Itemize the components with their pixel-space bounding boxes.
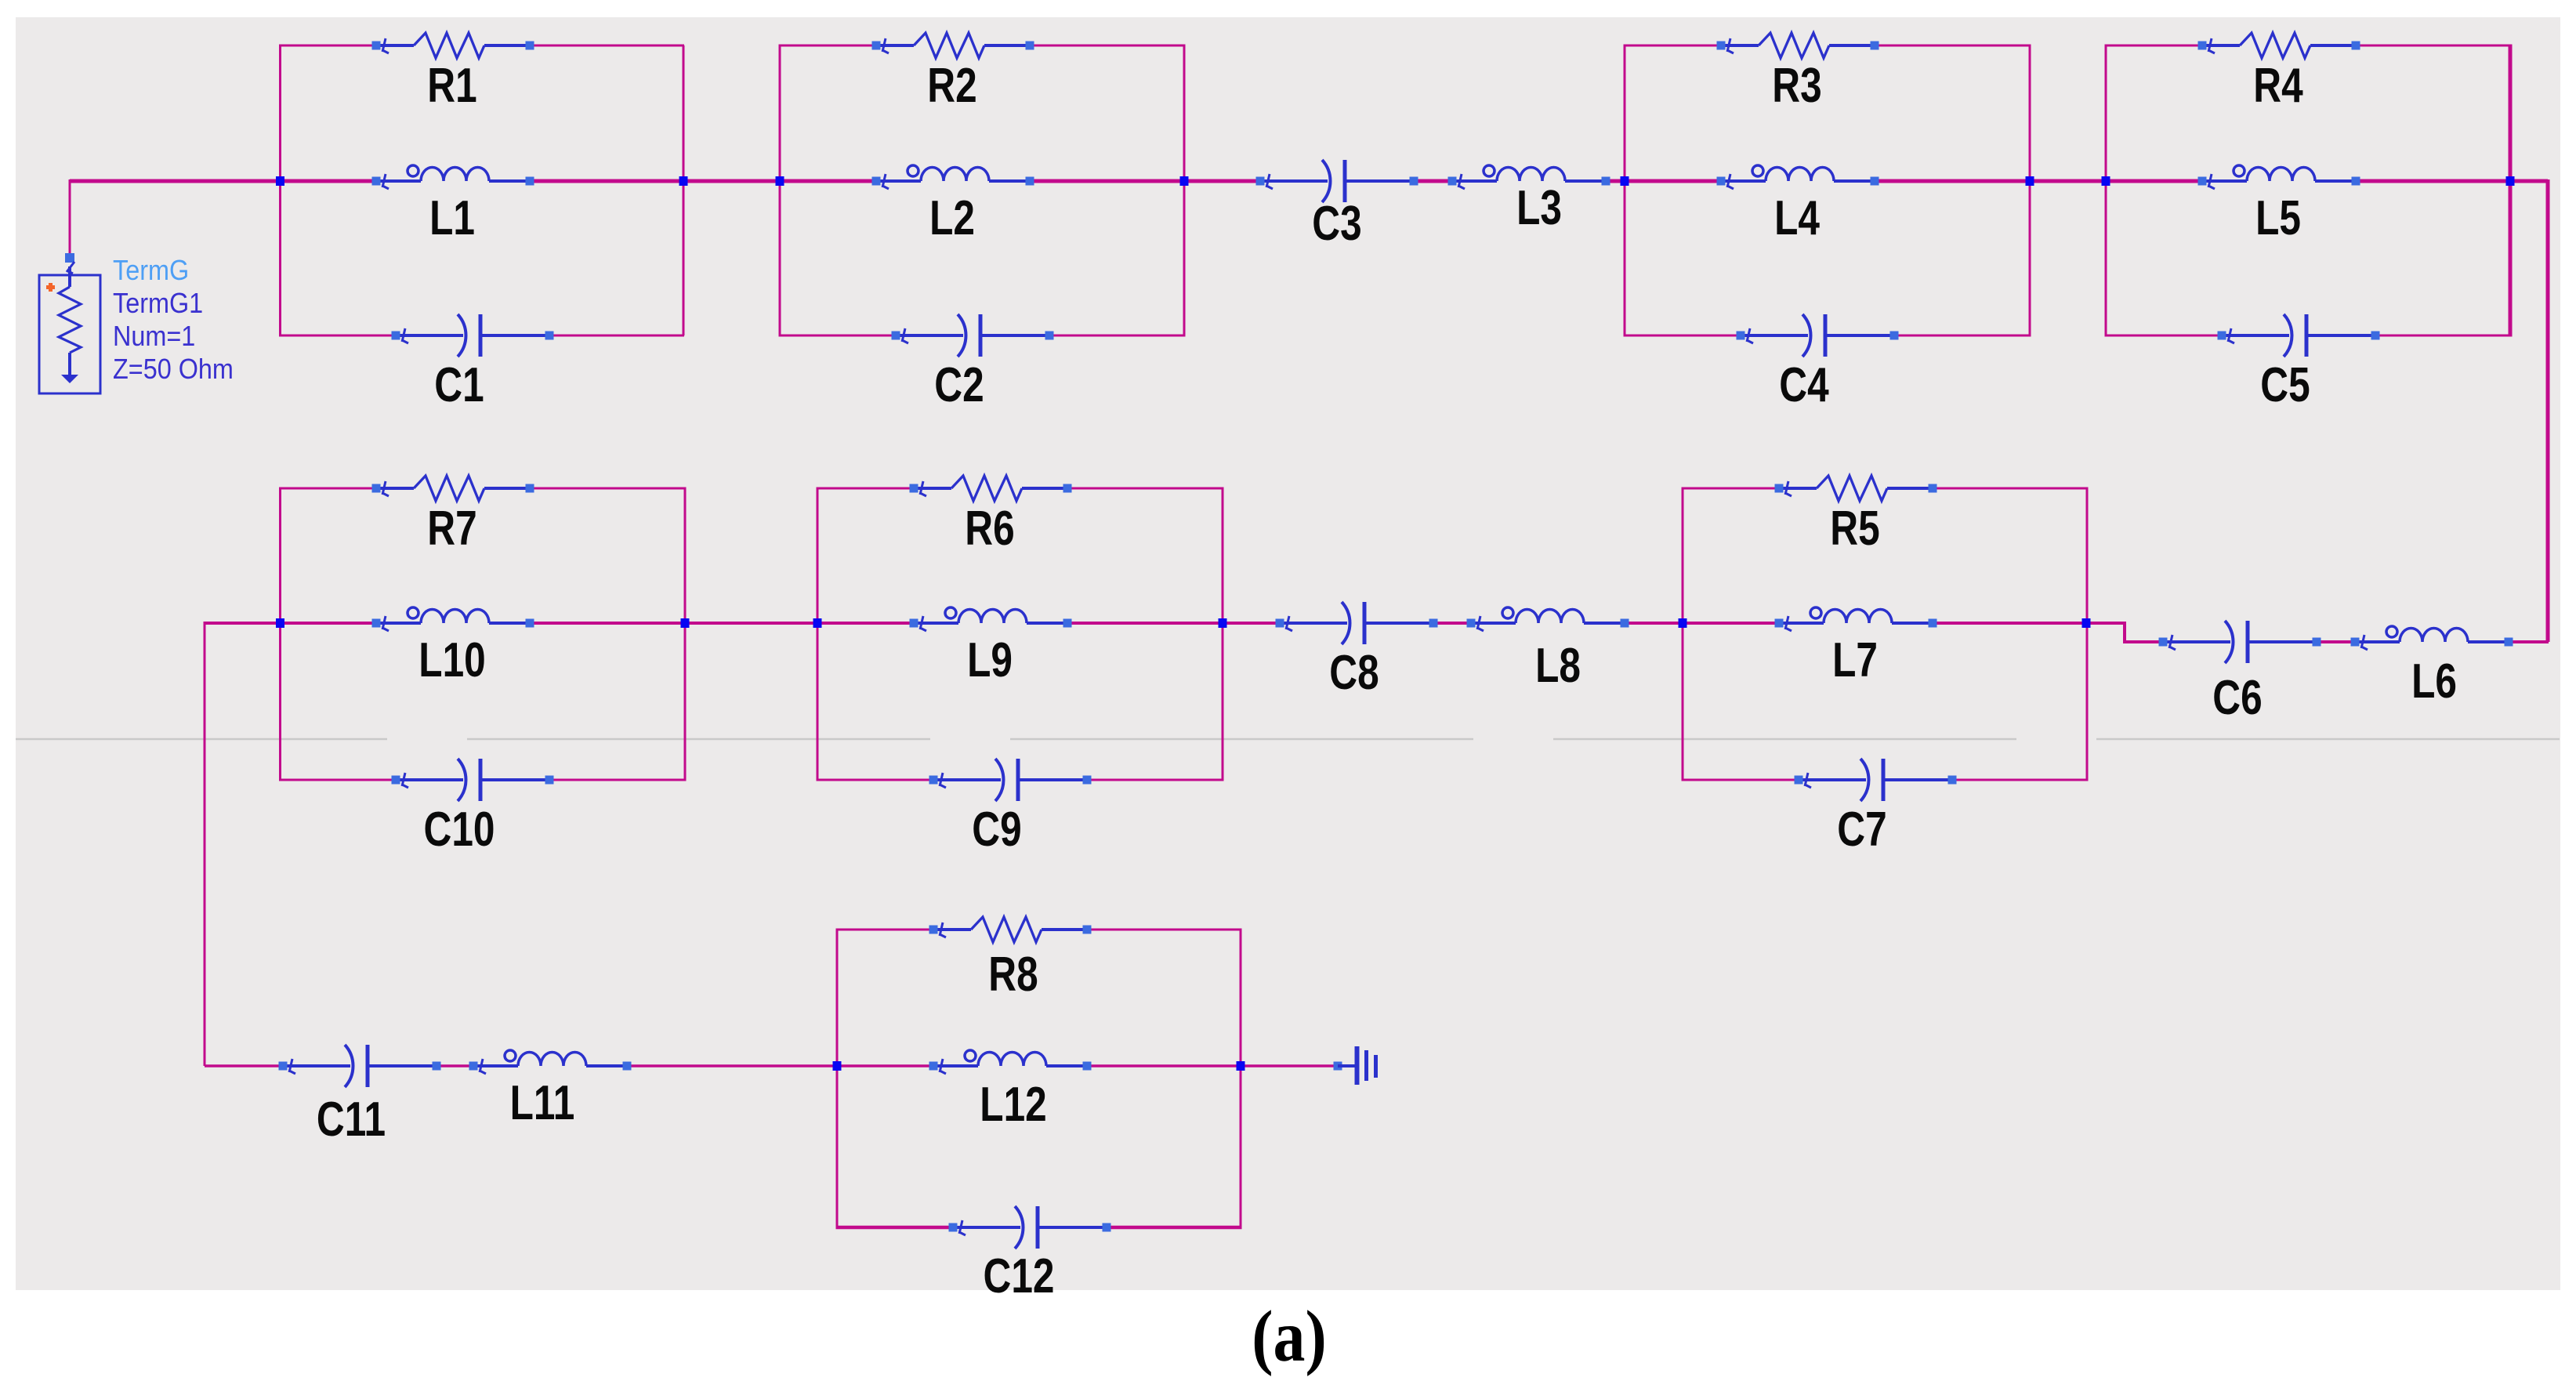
- svg-text:C11: C11: [317, 1092, 386, 1147]
- svg-text:C8: C8: [1329, 645, 1379, 700]
- svg-text:Num=1: Num=1: [113, 321, 195, 352]
- svg-text:C5: C5: [2260, 357, 2310, 412]
- svg-text:L7: L7: [1832, 633, 1878, 687]
- svg-text:R7: R7: [427, 501, 476, 556]
- svg-text:R1: R1: [427, 58, 476, 113]
- svg-text:L1: L1: [429, 190, 475, 245]
- svg-text:L10: L10: [418, 633, 485, 687]
- svg-text:TermG: TermG: [113, 255, 189, 286]
- svg-text:R8: R8: [988, 947, 1038, 1002]
- svg-text:R6: R6: [965, 501, 1014, 556]
- svg-text:C6: C6: [2212, 670, 2262, 725]
- svg-text:L8: L8: [1535, 638, 1581, 693]
- svg-text:C12: C12: [984, 1249, 1055, 1303]
- svg-text:TermG1: TermG1: [113, 288, 203, 319]
- svg-text:R3: R3: [1772, 58, 1821, 113]
- svg-text:L6: L6: [2411, 654, 2457, 709]
- svg-text:C7: C7: [1837, 802, 1886, 857]
- svg-text:L4: L4: [1774, 190, 1820, 245]
- svg-text:C2: C2: [934, 357, 984, 412]
- svg-text:L12: L12: [980, 1077, 1046, 1132]
- svg-text:C1: C1: [434, 357, 484, 412]
- svg-text:C9: C9: [972, 802, 1021, 857]
- svg-text:C10: C10: [424, 802, 495, 857]
- svg-text:R5: R5: [1830, 501, 1879, 556]
- svg-text:C3: C3: [1312, 196, 1361, 251]
- svg-text:R4: R4: [2253, 58, 2302, 113]
- svg-text:C4: C4: [1779, 357, 1828, 412]
- svg-text:Z=50 Ohm: Z=50 Ohm: [113, 353, 234, 385]
- svg-text:L9: L9: [967, 633, 1013, 687]
- svg-text:R2: R2: [927, 58, 976, 113]
- svg-text:L11: L11: [510, 1075, 575, 1130]
- svg-text:L3: L3: [1516, 180, 1562, 235]
- svg-text:L2: L2: [929, 190, 975, 245]
- svg-text:(a): (a): [1252, 1296, 1326, 1376]
- svg-text:L5: L5: [2255, 190, 2301, 245]
